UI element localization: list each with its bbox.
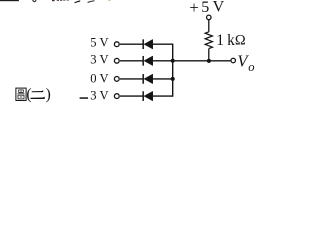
svg-text:5: 5 [201,0,209,16]
wire: 0 V terminal to diode D3 cathode [120,78,143,80]
junction: resistor bottom / output line [207,59,211,63]
wire: 3 V terminal to diode D2 cathode [120,60,143,62]
diode D4 (-3 V input) [143,91,153,101]
wire: resistor bottom to output node [208,49,210,61]
caption: figure label "tu" CJK glyph drawn with paths [16,88,26,100]
node: 5 V input terminal [114,42,119,47]
wire: vertical bus joining diode anodes [172,44,174,97]
wire: diode D2 anode to output line [153,60,173,62]
node: 0 V input terminal [114,77,119,82]
wire: diode D1 anode to bus [153,43,173,45]
svg-text:k: k [227,32,235,49]
junction: bus / output line [171,59,175,63]
node: +5 V supply terminal [207,15,212,20]
junction: bus / 0 V diode branch [171,77,175,81]
diode D1 (5 V input) [143,39,153,49]
svg-text:Ω: Ω [235,32,246,48]
svg-text:(: ( [26,86,31,103]
cropped text fragment (remnants of previous text line at top edge) [0,0,111,3]
svg-text:3 V: 3 V [90,89,108,103]
svg-text:1: 1 [216,32,224,49]
svg-text:o: o [248,60,254,74]
resistor R1 1 kOhm [205,32,212,49]
wire: 5 V terminal to diode D1 cathode [120,43,143,45]
value label 1 kOhm [216,32,246,49]
wire: diode D4 anode to bus [153,95,173,97]
caption: CJK "two" drawn as two bars [31,90,45,99]
svg-text:V: V [213,0,225,15]
node: -3 V input terminal [114,94,119,99]
svg-text:3 V: 3 V [90,52,108,66]
wire: output line from bus to Vo terminal [173,60,231,62]
label -3 V input (minus drawn as bar) [80,97,88,99]
wire: +5 V terminal to resistor top [208,20,210,32]
diode D3 (0 V input) [143,74,153,84]
label +5 V [189,0,224,17]
diode D2 (3 V input) [143,56,153,66]
svg-text:5 V: 5 V [90,35,108,49]
node: 3 V input terminal [114,58,119,63]
svg-text:): ) [46,86,51,103]
node: output terminal Vo [231,58,236,63]
svg-text:+: + [189,0,198,17]
svg-text:0 V: 0 V [90,72,108,86]
wire: -3 V terminal to diode D4 cathode [120,95,143,97]
wire: diode D3 anode to bus [153,78,173,80]
